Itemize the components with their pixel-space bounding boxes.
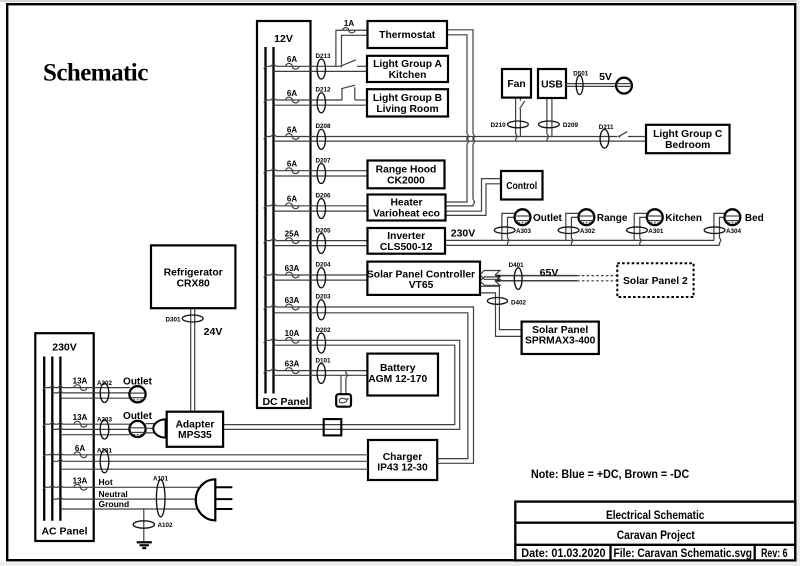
connector A302	[558, 227, 579, 234]
inline connector (row9 to Adapter)	[324, 419, 342, 435]
wire DC row6 +	[266, 239, 368, 240]
wire 230V bus bottom	[445, 244, 720, 246]
socket Outlet (A303)	[515, 209, 531, 225]
connector D501	[576, 75, 583, 94]
wire controller to Solar Panel SPRMAX (1)	[480, 286, 522, 329]
svg-text:D205: D205	[316, 227, 332, 234]
svg-text:D206: D206	[316, 193, 332, 200]
socket Outlet (A203)	[129, 421, 145, 437]
junction tick	[264, 340, 267, 343]
fuse 6A (row D206)	[286, 203, 299, 209]
connector D210	[508, 121, 529, 128]
svg-text:A304: A304	[726, 228, 742, 235]
svg-text:5V: 5V	[599, 71, 612, 83]
svg-text:63A: 63A	[285, 296, 300, 305]
connector A304	[704, 227, 725, 234]
svg-text:13A: 13A	[73, 476, 88, 485]
wire AC row A203 PE	[60, 434, 129, 436]
wire switch to Light Group B	[355, 99, 368, 101]
svg-text:Inverter: Inverter	[387, 231, 425, 242]
component Battery AGM 12-170	[367, 354, 438, 396]
svg-text:Neutral: Neutral	[99, 489, 128, 499]
svg-text:Electrical Schematic: Electrical Schematic	[606, 508, 705, 522]
svg-text:A302: A302	[580, 228, 596, 235]
wire riser to socket Bed (A304)	[714, 213, 726, 240]
wire AC row A101 Neutral	[52, 498, 213, 499]
wire solar 65V + (dashed to Solar Panel 2)	[495, 275, 577, 277]
wire DC row10 - (to Battery)	[274, 374, 368, 376]
wire AC row A201 PE	[60, 468, 368, 470]
wire DC row10 + (to Battery)	[266, 369, 368, 370]
svg-text:CK2000: CK2000	[387, 175, 425, 186]
wire DC row2 - (to Light Group B)	[274, 104, 368, 106]
junction tick	[264, 370, 267, 373]
svg-text:D101: D101	[316, 357, 332, 364]
junction tick	[264, 205, 267, 208]
svg-text:Kitchen: Kitchen	[665, 213, 702, 224]
svg-text:Fan: Fan	[507, 79, 525, 90]
wire 230V bus top	[445, 239, 714, 241]
component Thermostat	[368, 21, 448, 48]
component Light Group A	[367, 56, 448, 82]
svg-text:6A: 6A	[75, 444, 85, 453]
svg-text:MPS35: MPS35	[178, 430, 212, 441]
svg-text:A301: A301	[648, 228, 664, 235]
svg-text:Rev: 6: Rev: 6	[761, 546, 788, 560]
connector A102	[133, 521, 154, 528]
svg-text:D212: D212	[316, 87, 332, 94]
connector D207	[317, 164, 325, 184]
connector D401	[514, 268, 522, 290]
svg-text:13A: 13A	[73, 377, 88, 386]
svg-text:6A: 6A	[287, 89, 297, 98]
DC panel bus line 1 (-)	[264, 47, 266, 394]
socket Kitchen (A301)	[647, 209, 663, 225]
wire DC row3 + (to D211 switch / Light Group C)	[266, 135, 618, 136]
wire Refrigerator to Adapter 1	[190, 308, 192, 412]
junction tick	[264, 170, 267, 173]
AC bus line 2	[51, 357, 53, 521]
wire battery monitor branch 2	[346, 371, 347, 395]
wire controller to Solar Panel SPRMAX (2)	[480, 293, 522, 337]
svg-text:AC Panel: AC Panel	[41, 526, 87, 538]
svg-text:D402: D402	[511, 300, 527, 307]
component Refrigerator CRX80	[151, 245, 235, 308]
wire DC row9 + (loop to Adapter right)	[223, 339, 460, 430]
wire DC row5 +	[266, 204, 368, 205]
wire USB down-right to row3 +	[551, 98, 553, 137]
connector A201	[100, 450, 109, 473]
connector D206	[317, 199, 325, 219]
fuse 13A (A202)	[74, 385, 87, 391]
svg-text:63A: 63A	[285, 264, 300, 273]
wire USB to 5V socket (-)	[566, 85, 616, 87]
socket Outlet (A202)	[129, 386, 145, 402]
connector A202	[100, 383, 109, 402]
junction tick	[264, 136, 267, 139]
svg-text:Light Group C: Light Group C	[653, 129, 723, 140]
connector D212	[317, 93, 325, 113]
wire DC row7 +	[266, 274, 368, 275]
svg-text:Ground: Ground	[99, 499, 130, 509]
svg-text:Light Group A: Light Group A	[373, 59, 442, 70]
wire AC row A201 N	[52, 460, 368, 461]
connector A301	[627, 227, 648, 234]
svg-text:Kitchen: Kitchen	[389, 70, 427, 81]
svg-text:6A: 6A	[287, 125, 297, 134]
wire switch to Light Group A	[357, 65, 368, 67]
component Light Group B	[367, 89, 448, 116]
fuse 1A	[343, 28, 355, 33]
switch S4 (Fan) and wire to row3 +	[520, 98, 525, 137]
wire DC row1 + (to switch/Light Group A)	[266, 65, 340, 66]
svg-text:13A: 13A	[73, 413, 88, 422]
wire Control to Heater 2	[446, 184, 502, 216]
svg-text:D501: D501	[573, 71, 589, 78]
socket J501 (5V)	[616, 78, 632, 94]
connector D101	[317, 363, 325, 383]
svg-text:Bed: Bed	[745, 213, 764, 224]
svg-text:230V: 230V	[451, 228, 476, 240]
wire AC row A202 PE	[60, 397, 130, 399]
DC panel box	[257, 21, 311, 408]
svg-text:6A: 6A	[287, 55, 297, 64]
junction tick	[264, 240, 267, 243]
svg-text:A102: A102	[158, 522, 174, 529]
svg-text:Charger: Charger	[383, 452, 422, 463]
wire Refrigerator to Adapter 2	[194, 308, 196, 412]
connector D204	[317, 268, 325, 288]
svg-text:Refrigerator: Refrigerator	[164, 268, 223, 279]
svg-text:Outlet: Outlet	[533, 213, 563, 224]
svg-text:CLS500-12: CLS500-12	[380, 242, 433, 253]
wire USB to 5V socket (+)	[566, 83, 616, 85]
wire DC row5 -	[274, 210, 368, 212]
junction tick	[264, 306, 267, 309]
wire riser to socket Outlet (A303)	[502, 213, 516, 240]
fuse 6A (A201)	[74, 452, 87, 458]
component Light Group C	[646, 125, 730, 153]
svg-text:CRX80: CRX80	[177, 278, 210, 289]
svg-text:D211: D211	[599, 124, 614, 131]
svg-text:VT65: VT65	[409, 280, 434, 291]
component Adapter MPS35	[167, 412, 223, 447]
connector D202	[317, 333, 325, 353]
svg-text:Varioheat eco: Varioheat eco	[373, 208, 440, 219]
fuse 10A (row D202)	[286, 337, 299, 343]
svg-text:D210: D210	[491, 122, 507, 129]
svg-text:Outlet: Outlet	[123, 376, 153, 387]
AC panel box	[35, 333, 93, 541]
svg-text:Solar Panel 2: Solar Panel 2	[623, 276, 688, 287]
svg-text:A101: A101	[153, 475, 169, 482]
svg-text:Caravan Project: Caravan Project	[617, 528, 695, 542]
svg-text:D202: D202	[316, 327, 332, 334]
wire DC row8 - (loop to Charger right)	[274, 313, 468, 459]
component Control	[501, 171, 543, 200]
AC bus line 1	[43, 357, 45, 521]
svg-text:6A: 6A	[287, 195, 297, 204]
fuse 6A (row D207)	[286, 168, 299, 174]
junction tick	[43, 454, 46, 457]
connector A303	[494, 227, 515, 234]
wire AC row A101 Hot	[44, 486, 213, 487]
svg-text:D208: D208	[316, 123, 332, 130]
connector A101	[156, 480, 165, 517]
svg-text:D301: D301	[165, 316, 181, 323]
switch S1 (Light Group A)	[339, 65, 342, 68]
component Solar Panel 2 (dashed)	[617, 263, 693, 297]
socket Bed (A304)	[725, 209, 741, 225]
junction tick	[43, 387, 46, 390]
connector D209	[539, 121, 560, 128]
component USB	[538, 69, 566, 98]
svg-text:Note: Blue = +DC, Brown = -DC: Note: Blue = +DC, Brown = -DC	[531, 467, 690, 481]
svg-text:Bedroom: Bedroom	[665, 140, 710, 151]
svg-text:6A: 6A	[287, 160, 297, 169]
socket Range (A302)	[579, 209, 595, 225]
component Heater Varioheat eco	[368, 195, 446, 221]
fuse 13A (A101)	[74, 484, 87, 490]
svg-text:Battery: Battery	[380, 363, 416, 374]
DC panel bus line 2 (+)	[272, 47, 274, 394]
svg-text:Date: 01.03.2020: Date: 01.03.2020	[521, 546, 606, 560]
wire Fan down-left to row3 -	[516, 98, 517, 142]
wire AC row A202 N	[52, 391, 130, 392]
svg-text:Control: Control	[506, 181, 537, 192]
plug pin Hot	[215, 486, 232, 488]
wire DC row6 -	[274, 245, 368, 247]
svg-text:Light Group B: Light Group B	[373, 93, 442, 104]
wire riser to socket Kitchen (A301)	[634, 213, 648, 240]
wire USB down-left to row3 -	[547, 98, 548, 141]
svg-text:D203: D203	[316, 294, 332, 301]
svg-text:IP43 12-30: IP43 12-30	[377, 463, 428, 474]
wire DC row2 + (to switch/Light Group B)	[266, 99, 343, 100]
svg-text:65V: 65V	[540, 267, 559, 279]
svg-text:A202: A202	[97, 380, 113, 387]
svg-text:D401: D401	[509, 262, 525, 269]
flag connector solar input 2	[480, 277, 500, 285]
wire to Thermostat -	[342, 35, 368, 64]
svg-text:63A: 63A	[285, 359, 300, 368]
svg-text:Range: Range	[597, 213, 628, 224]
svg-text:Heater: Heater	[390, 198, 422, 209]
wire switch to Light Group C	[628, 136, 646, 138]
svg-text:Hot: Hot	[99, 477, 113, 487]
wire ground drop	[143, 509, 145, 541]
connector D402	[487, 298, 507, 305]
svg-text:D213: D213	[316, 53, 332, 60]
wire to Thermostat + (via 1A fuse)	[336, 30, 368, 66]
component Solar Panel SPRMAX3-400	[522, 322, 599, 354]
svg-text:12V: 12V	[274, 33, 293, 45]
svg-text:Living Room: Living Room	[376, 104, 438, 115]
wire AC row A203 L	[44, 423, 130, 424]
svg-text:A203: A203	[97, 417, 113, 424]
plug (Adapter input)	[153, 419, 165, 437]
push switch S2 (Light Group B)	[341, 85, 355, 100]
svg-text:10A: 10A	[285, 329, 300, 338]
component Inverter CLS500-12	[368, 228, 446, 254]
fuse 6A (row D213)	[286, 63, 299, 69]
svg-text:Thermostat: Thermostat	[379, 30, 436, 41]
junction tick	[43, 424, 46, 427]
wire DC row4 -	[274, 175, 368, 177]
connector A203	[100, 420, 109, 439]
wire AC row A101 Ground	[60, 508, 213, 510]
plug pin Ground	[215, 508, 232, 510]
wire battery monitor branch 1	[340, 375, 342, 394]
svg-text:A201: A201	[97, 447, 113, 454]
wire riser to socket Range (A302)	[566, 213, 580, 240]
svg-text:Solar Panel: Solar Panel	[532, 325, 588, 336]
svg-text:D207: D207	[316, 157, 332, 164]
fuse 63A (row D204)	[286, 272, 299, 278]
svg-text:Adapter: Adapter	[175, 419, 214, 430]
junction tick	[264, 66, 267, 69]
wire Thermostat + down to Heater	[446, 30, 475, 206]
flag connector solar input 1	[480, 271, 500, 280]
fuse 25A (row D205)	[286, 238, 299, 244]
wire DC row7 -	[274, 279, 368, 281]
connector D205	[317, 233, 325, 253]
svg-text:A303: A303	[516, 228, 532, 235]
wire DC row1 - (to Light Group A)	[274, 70, 368, 72]
wire Control to Heater 1	[446, 179, 502, 212]
wire DC row4 +	[266, 169, 368, 170]
svg-text:D204: D204	[316, 262, 332, 269]
svg-text:Outlet: Outlet	[123, 411, 153, 422]
wire Thermostat - down to Heater	[446, 35, 469, 202]
component Charger IP43 12-30	[368, 440, 437, 480]
svg-text:D209: D209	[563, 122, 579, 129]
svg-text:USB: USB	[541, 79, 563, 90]
fuse 6A (row D208)	[286, 134, 299, 140]
connector D208	[317, 129, 325, 149]
svg-text:DC Panel: DC Panel	[262, 396, 308, 408]
fuse 63A (row D101)	[286, 368, 299, 374]
title block	[515, 502, 795, 561]
svg-text:SPRMAX3-400: SPRMAX3-400	[525, 336, 596, 347]
wire solar 65V - (dashed to Solar Panel 2)	[495, 280, 577, 282]
switch S3 (Light Group C)	[618, 135, 621, 138]
fuse 13A (A203)	[74, 421, 87, 427]
svg-text:25A: 25A	[285, 229, 300, 238]
svg-text:230V: 230V	[52, 342, 77, 354]
wire DC row9 - (loop to Adapter right)	[223, 345, 455, 424]
component Range Hood CK2000	[368, 161, 445, 189]
connector D213	[317, 59, 325, 79]
component Solar Panel Controller VT65	[367, 262, 480, 295]
wire AC row A202 L	[44, 386, 130, 387]
junction tick	[43, 487, 46, 490]
svg-text:Range Hood: Range Hood	[376, 165, 437, 176]
wire AC row A203 N	[52, 428, 130, 429]
connector D301	[182, 315, 203, 322]
svg-text:Schematic: Schematic	[43, 60, 148, 87]
component Fan	[502, 69, 531, 98]
junction tick	[264, 99, 267, 102]
svg-text:AGM 12-170: AGM 12-170	[368, 374, 427, 385]
svg-text:File: Caravan Schematic.svg: File: Caravan Schematic.svg	[614, 546, 753, 560]
wire AC row A201 L	[44, 453, 368, 454]
fuse 63A (row D203)	[286, 304, 299, 310]
plug pin Neutral	[215, 498, 232, 500]
fuse 6A (row D212)	[286, 97, 299, 103]
wire DC row3 - (to Light Group C)	[274, 140, 647, 142]
svg-text:1A: 1A	[344, 19, 354, 28]
AC bus line 3	[59, 357, 61, 521]
connector D203	[317, 300, 325, 320]
connector D211	[600, 130, 609, 149]
wire socket to adapter plug	[146, 424, 156, 433]
svg-text:Solar Panel Controller: Solar Panel Controller	[367, 269, 475, 280]
battery monitor shunt	[336, 394, 351, 407]
mains plug	[196, 479, 216, 520]
ground symbol	[137, 542, 152, 548]
svg-text:24V: 24V	[204, 326, 223, 338]
junction tick	[264, 274, 267, 277]
wire DC row8 + (loop to Charger right)	[266, 306, 474, 464]
